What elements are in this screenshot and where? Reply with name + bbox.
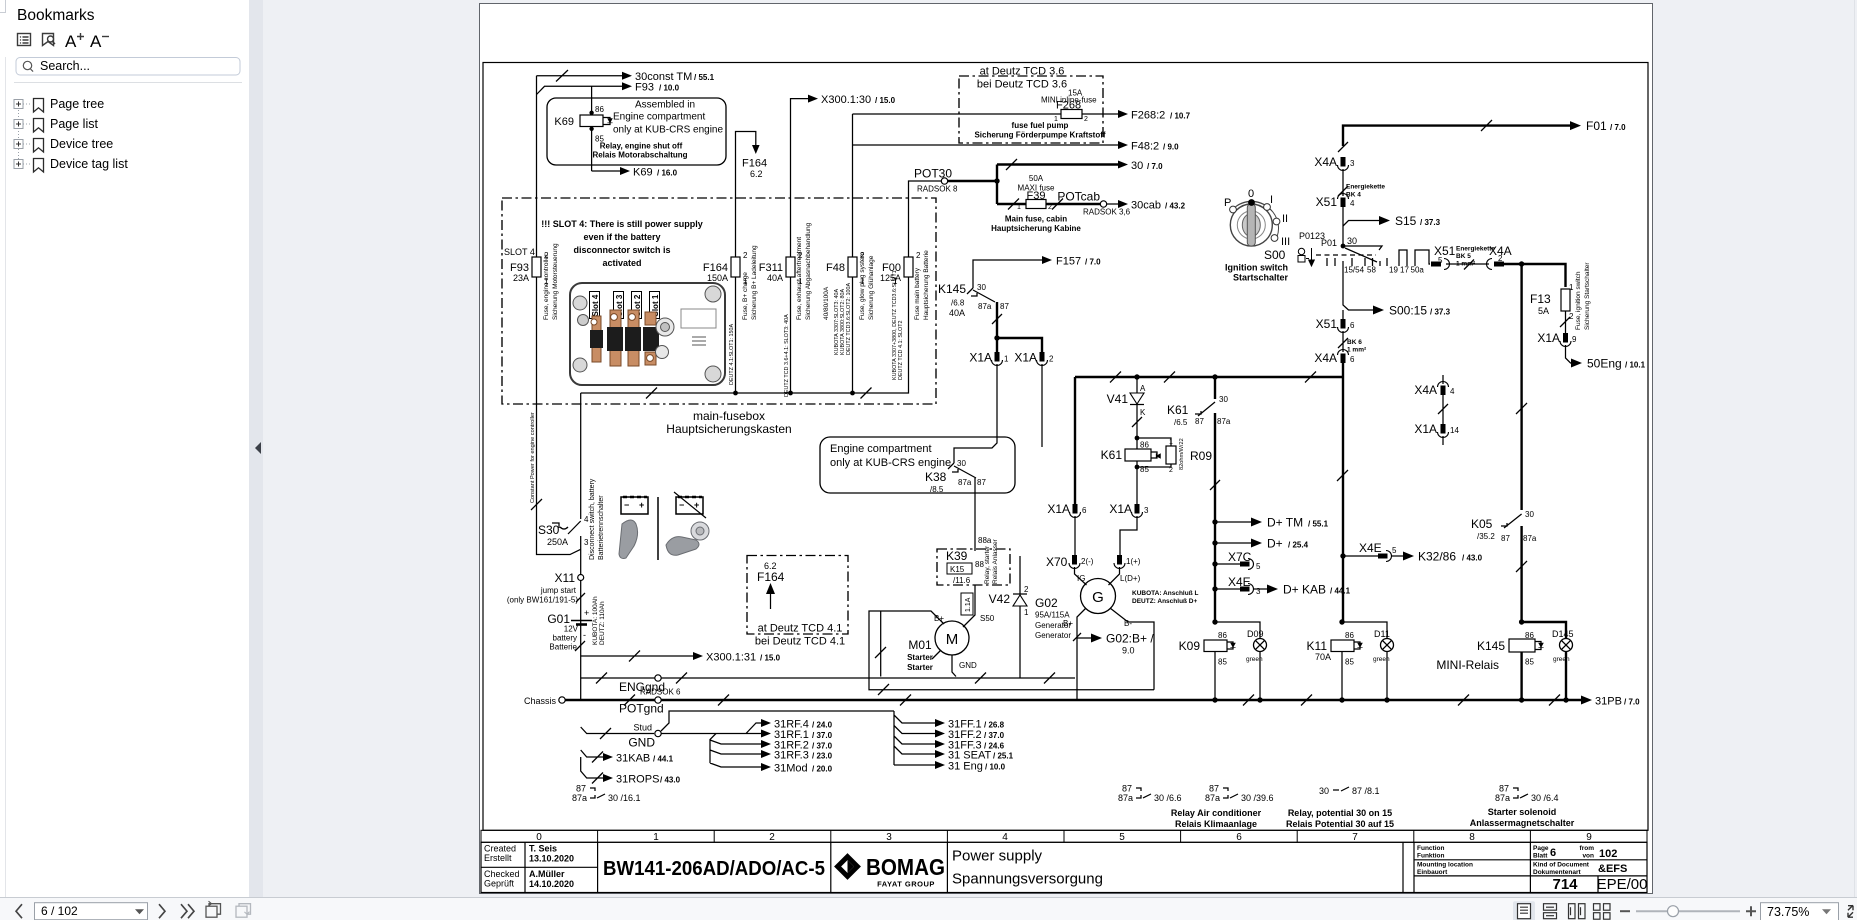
svg-text:2: 2 (1024, 585, 1029, 594)
svg-text:9: 9 (1586, 832, 1592, 843)
node 30const TM arrow (537, 70, 715, 83)
svg-text:0: 0 (1248, 188, 1254, 200)
svg-text:9.0: 9.0 (1122, 646, 1135, 656)
svg-text:F93: F93 (635, 82, 654, 94)
node 30/7.0 arrow (thick) (948, 159, 1164, 204)
svg-text:5: 5 (1392, 546, 1397, 555)
svg-text:Fuse, B+ charge: Fuse, B+ charge (742, 272, 749, 320)
svg-text:Fuse, ignition switch: Fuse, ignition switch (1575, 271, 1582, 330)
svg-text:GND: GND (959, 661, 977, 670)
svg-text:Device tag list: Device tag list (50, 157, 128, 171)
connector X1A pin6 (1047, 502, 1087, 559)
svg-text:X4E: X4E (1359, 541, 1382, 555)
svg-text:DEUTZ TCD 4.1: SLOT2: DEUTZ TCD 4.1: SLOT2 (898, 320, 904, 380)
svg-text:von: von (1582, 853, 1594, 860)
svg-text:Kind of Document: Kind of Document (1533, 862, 1590, 869)
svg-text:A: A (90, 32, 102, 51)
svg-text:F164: F164 (757, 570, 785, 584)
svg-text:F164: F164 (742, 158, 767, 170)
svg-text:A: A (65, 32, 77, 51)
svg-text:0: 0 (536, 832, 542, 843)
wire K38-87 down to K39 (975, 478, 992, 551)
svg-text:Engine compartment: Engine compartment (830, 443, 932, 455)
ground stud GND (581, 723, 662, 750)
svg-text:1 mm²: 1 mm² (1347, 347, 1367, 354)
svg-text:EPE/00: EPE/00 (1597, 876, 1648, 893)
wire X1A:1 down into K38 (954, 364, 997, 463)
svg-text:X300.1:30: X300.1:30 (821, 94, 871, 106)
svg-text:Search...: Search... (40, 59, 90, 73)
svg-text:RADSOK 6: RADSOK 6 (640, 688, 681, 697)
svg-text:BK 6: BK 6 (1347, 339, 1362, 346)
svg-text:/6.5: /6.5 (1174, 418, 1188, 427)
svg-text:bei Deutz TCD 4.1: bei Deutz TCD 4.1 (755, 636, 845, 648)
drawing frame (483, 63, 1648, 831)
svg-text:12V: 12V (564, 625, 579, 634)
node D+/25.4 arrow (1215, 537, 1309, 551)
svg-text:Relais Motorabschaltung: Relais Motorabschaltung (592, 151, 687, 160)
svg-text:2: 2 (1048, 204, 1052, 211)
S00 label (1225, 248, 1288, 283)
svg-text:30: 30 (1219, 395, 1228, 404)
svg-text:/ 7.0: / 7.0 (1085, 258, 1101, 267)
svg-text:/ 37.3: / 37.3 (1430, 308, 1451, 317)
svg-text:/ 10.0: / 10.0 (985, 763, 1006, 772)
svg-text:Page list: Page list (50, 117, 98, 131)
svg-text:K69: K69 (633, 167, 653, 179)
svg-text:87: 87 (1499, 784, 1509, 794)
svg-text:Erstellt: Erstellt (484, 853, 512, 863)
schematic svg (479, 2, 1653, 894)
svg-text:X4A: X4A (1314, 155, 1337, 169)
svg-text:30: 30 (977, 283, 986, 292)
svg-text:1.1A: 1.1A (965, 597, 972, 612)
svg-text:/ 10.1: / 10.1 (1625, 361, 1646, 370)
svg-text:14.10.2020: 14.10.2020 (529, 879, 574, 889)
svg-text:Function: Function (1417, 845, 1444, 852)
svg-text:87: 87 (977, 478, 986, 487)
vertical rotated note: constant power (530, 412, 536, 503)
svg-text:/ 10.7: / 10.7 (1170, 112, 1191, 121)
svg-text:5: 5 (1256, 562, 1261, 571)
zoom plus (1746, 906, 1756, 916)
svg-text:19: 19 (1389, 266, 1398, 275)
svg-text:X11: X11 (555, 571, 576, 585)
svg-text:6: 6 (1350, 321, 1355, 330)
svg-text:activated: activated (602, 258, 641, 268)
svg-text:/ 15.0: / 15.0 (760, 654, 781, 663)
relay coil K61 (1101, 403, 1189, 480)
diode V41 (1107, 377, 1146, 440)
svg-text:30: 30 (1319, 786, 1329, 796)
svg-text:6 / 102: 6 / 102 (41, 904, 78, 918)
svg-text:Ignition switch: Ignition switch (1225, 263, 1288, 273)
svg-text:87: 87 (1122, 784, 1132, 794)
svg-text:87a: 87a (1205, 793, 1220, 803)
node F268:2 arrow (1118, 110, 1191, 122)
svg-text:7: 7 (1352, 832, 1358, 843)
svg-text:Blatt: Blatt (1533, 853, 1548, 860)
svg-text:/ 10.0: / 10.0 (659, 84, 680, 93)
svg-text:Relay, potential 30 on 15: Relay, potential 30 on 15 (1288, 808, 1392, 818)
generator G02 (1035, 574, 1198, 640)
svg-text:D09: D09 (1247, 629, 1264, 639)
svg-text:40/80/100A: 40/80/100A (823, 286, 830, 320)
svg-text:30: 30 (1347, 236, 1357, 246)
svg-text:/ 26.8: / 26.8 (984, 721, 1005, 730)
svg-text:Spannungsversorgung: Spannungsversorgung (952, 871, 1103, 888)
slash on battery feed wire (531, 499, 542, 510)
svg-text:85: 85 (1345, 658, 1354, 667)
svg-text:/ 24.0: / 24.0 (812, 721, 833, 730)
svg-text:K145: K145 (938, 282, 966, 296)
caption relay potential (1286, 808, 1394, 829)
node 31PB arrow (1581, 696, 1640, 708)
label main-fusebox (666, 409, 791, 436)
svg-text:6: 6 (1082, 506, 1087, 515)
title block: document title (952, 848, 1103, 888)
svg-text:G: G (1092, 589, 1104, 606)
svg-text:P: P (1224, 197, 1231, 209)
fuse F00 125A main battery (880, 250, 930, 380)
svg-text:DEUTZ 4.1:SLOT1: 150A: DEUTZ 4.1:SLOT1: 150A (729, 323, 735, 385)
svg-text:87 /8.1: 87 /8.1 (1352, 786, 1380, 796)
svg-text:X1A: X1A (969, 351, 992, 365)
svg-text:I: I (1270, 194, 1273, 206)
svg-text:Checked: Checked (484, 869, 520, 879)
svg-text:Fuse, engine controller: Fuse, engine controller (543, 253, 550, 320)
svg-text:S00: S00 (1264, 248, 1286, 262)
svg-text:D+ TM: D+ TM (1267, 516, 1303, 530)
svg-text:F157: F157 (1056, 256, 1081, 268)
svg-text:S15: S15 (1395, 214, 1417, 228)
white pdf page (480, 4, 1652, 893)
svg-text:/ 43.2: / 43.2 (1165, 202, 1186, 211)
thick wire X4A:2 junction down to K05 (1516, 264, 1527, 510)
svg-text:KUBOTA: Anschluß L: KUBOTA: Anschluß L (1132, 590, 1198, 597)
svg-text:/ 43.0: / 43.0 (1462, 554, 1483, 563)
svg-text:250A: 250A (547, 537, 568, 547)
svg-text:2: 2 (1569, 312, 1574, 321)
svg-text:58: 58 (1367, 266, 1376, 275)
svg-text:82ohm/W/22: 82ohm/W/22 (1179, 438, 1185, 470)
svg-text:87a: 87a (1495, 793, 1510, 803)
fuse F39 MAXI 50A (thick wire) (991, 174, 1100, 233)
svg-text:Hauptsicherungskasten: Hauptsicherungskasten (666, 422, 791, 436)
svg-text:Stud: Stud (633, 723, 652, 733)
svg-text:from: from (1580, 845, 1595, 852)
connector X4A pin6 (1314, 350, 1355, 378)
svg-text:Starter: Starter (907, 663, 933, 672)
svg-text:87: 87 (1209, 784, 1219, 794)
svg-text:battery: battery (553, 634, 577, 643)
svg-text:30: 30 (1525, 510, 1534, 519)
svg-text:bei Deutz TCD 3.6: bei Deutz TCD 3.6 (977, 79, 1067, 91)
fusebox output bus wire (581, 277, 909, 399)
caption starter solenoid (1470, 807, 1575, 828)
relay K145 MINI-Relais + pilot lamp D145 (1436, 619, 1573, 702)
svg-text:3: 3 (1350, 159, 1355, 168)
fuse F268 MINI inline (853, 89, 1119, 140)
svg-text:L(D+): L(D+) (1120, 574, 1141, 583)
svg-text:1: 1 (1169, 439, 1173, 446)
relay K11 + pilot lamp D11 (1307, 619, 1394, 702)
starter motor M01 (869, 585, 1154, 695)
svg-text:M01: M01 (908, 638, 932, 652)
svg-text:5A: 5A (1538, 306, 1549, 316)
svg-text:only at KUB-CRS engine: only at KUB-CRS engine (613, 125, 723, 136)
svg-text:at Deutz TCD 3.6: at Deutz TCD 3.6 (980, 66, 1065, 78)
rotated label disconnect switch (589, 478, 605, 560)
svg-text:40A: 40A (767, 273, 783, 283)
node S15 arrow (1343, 214, 1441, 228)
svg-text:/ 25.1: / 25.1 (993, 752, 1014, 761)
svg-text:Chassis: Chassis (524, 696, 557, 706)
svg-text:2: 2 (916, 251, 921, 260)
svg-text:F48: F48 (826, 262, 845, 274)
continuous layout icon (1544, 904, 1557, 919)
svg-text:IG: IG (1077, 574, 1085, 583)
svg-text:73.75%: 73.75% (1767, 905, 1809, 919)
svg-text:87a: 87a (1118, 793, 1133, 803)
sidebar top-left corner panel lines (0, 0, 6, 13)
fuse F164 150A (703, 245, 758, 320)
wire: main battery feed vertical from 30const down to S30 (537, 76, 581, 555)
svg-text:X70: X70 (1046, 555, 1068, 569)
svg-text:86: 86 (1140, 441, 1149, 450)
svg-text:F268:2: F268:2 (1131, 110, 1165, 122)
icon: A- (90, 32, 109, 51)
svg-text:D+: D+ (1267, 537, 1283, 551)
svg-text:31 Eng: 31 Eng (948, 761, 983, 773)
dash-dot box F164 at Deutz TCD 4.1 (747, 556, 848, 648)
svg-text:4: 4 (1350, 199, 1355, 208)
svg-text:31KAB: 31KAB (616, 753, 650, 765)
svg-text:D+ KAB: D+ KAB (1283, 583, 1326, 597)
S00 contact bank (1298, 231, 1430, 275)
svg-text:87a: 87a (958, 478, 972, 487)
rotate cw icon (disabled) (236, 904, 251, 918)
svg-text:F39: F39 (1027, 190, 1046, 202)
rotate ccw icon (206, 901, 221, 917)
svg-text:K05: K05 (1471, 517, 1493, 531)
svg-text:Sicherung Förderpumpe Kraftsto: Sicherung Förderpumpe Kraftstoff (974, 131, 1105, 140)
svg-text:RADSOK 8: RADSOK 8 (917, 185, 958, 194)
chassis ground node (524, 696, 565, 706)
svg-text:6: 6 (1550, 847, 1556, 859)
svg-text:3: 3 (886, 832, 892, 843)
node F01 arrow (top right) (1343, 119, 1626, 146)
svg-text:88a: 88a (978, 536, 992, 545)
wire 15/54 down / node S00:15 arrow (1343, 266, 1451, 319)
svg-text:DEUTZ: 110Ah: DEUTZ: 110Ah (599, 601, 606, 645)
connector X1A pin3 (1109, 480, 1149, 559)
svg-text:RADSOK 3,6: RADSOK 3,6 (1083, 208, 1131, 217)
zoom slider (1636, 910, 1740, 912)
svg-text:1: 1 (653, 832, 659, 843)
contact ref K69 87/87a/30 (572, 784, 641, 804)
svg-text:K69: K69 (554, 116, 574, 128)
svg-text:31ROPS: 31ROPS (616, 774, 659, 786)
tree item: Page tree (14, 97, 104, 112)
svg-text:GND: GND (628, 736, 655, 750)
energiekette BK6 note (1338, 331, 1367, 354)
SLOT4 warning text (541, 219, 703, 268)
svg-text:1(+): 1(+) (1126, 557, 1141, 566)
svg-text:85: 85 (1140, 465, 1149, 474)
svg-text:Bookmarks: Bookmarks (17, 7, 95, 24)
svg-text:6.2: 6.2 (750, 169, 763, 179)
svg-text:DEUTZ: Anschluß D+: DEUTZ: Anschluß D+ (1132, 598, 1198, 605)
svg-text:9: 9 (1572, 335, 1577, 344)
connector X70 pins 2(-)/1(+) (1046, 555, 1141, 585)
contact ref K09 30/6.6 (1118, 784, 1182, 804)
relay contact K145/6.8 40A (938, 282, 1009, 318)
svg-text:even if the battery: even if the battery (583, 232, 660, 242)
connector POTgnd / thick ground bus (565, 695, 1583, 716)
svg-text:1: 1 (1017, 204, 1021, 211)
svg-text:Dokumentenart: Dokumentenart (1533, 869, 1582, 876)
svg-text:Starter solenoid: Starter solenoid (1488, 807, 1557, 817)
svg-text:/ 7.0: / 7.0 (1624, 698, 1640, 707)
svg-text:K: K (1140, 408, 1146, 417)
thick distribution bus under X4A:6 (1075, 372, 1343, 505)
gnd fan to 31RF arrows (661, 719, 832, 775)
svg-text:87: 87 (1195, 417, 1204, 426)
svg-text:main-fusebox: main-fusebox (693, 409, 765, 423)
svg-text:31Mod: 31Mod (774, 763, 808, 775)
svg-text:S00:15: S00:15 (1389, 304, 1427, 318)
svg-text:(only BW161/191-5): (only BW161/191-5) (507, 596, 578, 605)
svg-text:/ 37.3: / 37.3 (1420, 218, 1441, 227)
svg-text:POTcab: POTcab (1057, 190, 1100, 204)
last page chevrons (181, 904, 194, 918)
splitter between sidebar and main (249, 0, 263, 897)
relay K09 + pilot lamp D09 (1179, 619, 1267, 702)
svg-text:disconnector switch is: disconnector switch is (573, 245, 670, 255)
svg-text:K61: K61 (1167, 403, 1189, 417)
bottom toolbar (0, 897, 1857, 920)
svg-text:K38: K38 (925, 470, 947, 484)
svg-text:FAYAT GROUP: FAYAT GROUP (877, 880, 935, 889)
svg-text:S50: S50 (980, 614, 995, 623)
svg-text:Sicherung Abgasnachbehandlung: Sicherung Abgasnachbehandlung (805, 222, 812, 320)
svg-text:87a: 87a (1217, 417, 1231, 426)
contact ref K145 30/6.4 (1495, 784, 1559, 804)
svg-text:86: 86 (595, 105, 604, 114)
svg-text:/ 9.0: / 9.0 (1163, 143, 1179, 152)
svg-text:Fuse, glow plug system: Fuse, glow plug system (859, 252, 866, 320)
svg-text:Assembled in: Assembled in (635, 100, 695, 111)
fuse F311 40A (759, 222, 812, 320)
svg-text:Batterie: Batterie (549, 643, 577, 652)
fullscreen icon (1848, 905, 1853, 917)
svg-text:Relais Klimaanlage: Relais Klimaanlage (1175, 819, 1257, 829)
svg-text:Starter: Starter (907, 653, 933, 662)
svg-text:F268: F268 (1056, 100, 1081, 112)
tree: dotted vertical connector (18, 107, 20, 162)
search box (16, 58, 240, 76)
svg-text:DEUTZ TCD 3.6+4.1: SLOT3: 40A: DEUTZ TCD 3.6+4.1: SLOT3: 40A (784, 314, 790, 397)
svg-text:!!! SLOT 4: There is still pow: !!! SLOT 4: There is still power supply (541, 219, 703, 229)
node X300.1:31 arrow (581, 651, 781, 664)
connector X4E pin3 / node D+ KAB arrow (1212, 575, 1350, 597)
svg-text:Fuse, exhaust aftertreatment: Fuse, exhaust aftertreatment (796, 237, 803, 320)
node F48:2 arrow (853, 141, 1180, 153)
svg-text:50Eng: 50Eng (1587, 357, 1622, 371)
svg-text:K11: K11 (1307, 639, 1328, 653)
dash-dot box SLOT fuses (502, 198, 936, 404)
svg-text:6: 6 (1350, 355, 1355, 364)
connector pair X4A:4 / X1A:14 (1414, 375, 1459, 445)
connector X11 jump start (507, 571, 585, 605)
svg-text:X7C: X7C (1228, 550, 1252, 564)
svg-text:X1A: X1A (1537, 331, 1560, 345)
svg-text:2: 2 (743, 251, 748, 260)
svg-text:15/54: 15/54 (1344, 266, 1365, 275)
svg-text:K32/86: K32/86 (1418, 550, 1456, 564)
contact ref K05 87/8.1 (1319, 786, 1380, 796)
connector X4A pin3 (1314, 142, 1355, 196)
svg-text:G02:B+ /: G02:B+ / (1106, 632, 1154, 646)
svg-text:85: 85 (595, 135, 604, 144)
svg-text:II: II (1282, 213, 1288, 225)
disconnect switch S30 (538, 393, 589, 700)
column number strip (481, 830, 1647, 842)
tree item: Device tree (14, 137, 113, 152)
prev page chevron (16, 904, 22, 918)
svg-text:Batterietrennschalter: Batterietrennschalter (598, 495, 605, 560)
collapse arrow on splitter (252, 440, 264, 456)
connector X1A pin2 (1014, 351, 1054, 366)
svg-text:Page tree: Page tree (50, 97, 104, 111)
svg-text:/ 55.1: / 55.1 (694, 73, 715, 82)
svg-text:X300.1:31: X300.1:31 (706, 652, 756, 664)
svg-text:Startschalter: Startschalter (1233, 273, 1289, 283)
node 50Eng arrow (1566, 345, 1646, 371)
svg-text:30: 30 (1131, 160, 1143, 172)
svg-text:4: 4 (1002, 832, 1008, 843)
svg-text:DEUTZ TCD3.6:SLOT2: 100A: DEUTZ TCD3.6:SLOT2: 100A (846, 282, 852, 355)
tree item: Page list (14, 117, 98, 132)
svg-text:Disconnect switch, battery: Disconnect switch, battery (589, 478, 596, 560)
svg-text:/ 25.4: / 25.4 (1288, 541, 1309, 550)
svg-text:30 /39.6: 30 /39.6 (1241, 793, 1274, 803)
fuse F48 glow plug (823, 251, 875, 355)
svg-text:87a: 87a (978, 302, 992, 311)
svg-text:B+: B+ (1063, 619, 1073, 628)
svg-text:K15: K15 (950, 565, 965, 574)
svg-text:V42: V42 (989, 592, 1011, 606)
connector X51 pin4 (1316, 194, 1355, 247)
node K32/86 arrow (1403, 550, 1483, 564)
connector X1A pin9 (1537, 331, 1577, 347)
svg-text:Anlassermagnetschalter: Anlassermagnetschalter (1470, 818, 1575, 828)
contact ref K11 30/39.6 (1205, 784, 1274, 804)
svg-text:86: 86 (1218, 631, 1227, 640)
title block: function / page cells (1417, 845, 1647, 893)
svg-text:Hauptsicherung Kabine: Hauptsicherung Kabine (991, 224, 1081, 233)
node 31KAB arrow (581, 750, 674, 765)
svg-text:87a: 87a (572, 793, 587, 803)
svg-text:/ 44.1: / 44.1 (1330, 587, 1351, 596)
svg-text:K39: K39 (946, 549, 968, 563)
svg-text:Funktion: Funktion (1417, 853, 1444, 860)
icon: A+ (65, 32, 84, 51)
svg-text:3: 3 (1144, 506, 1149, 515)
two page layout icon (1569, 904, 1586, 919)
svg-text:50A: 50A (1029, 174, 1044, 183)
